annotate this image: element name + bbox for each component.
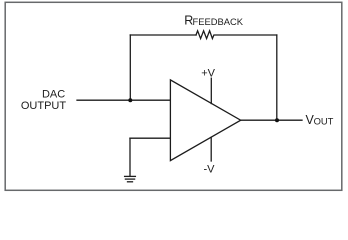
svg-text:OUTPUT: OUTPUT bbox=[21, 100, 67, 112]
svg-text:FEEDBACK: FEEDBACK bbox=[193, 16, 244, 27]
svg-text:DAC: DAC bbox=[42, 89, 65, 101]
svg-text:OUT: OUT bbox=[314, 115, 334, 126]
svg-text:+V: +V bbox=[201, 68, 215, 80]
svg-text:-V: -V bbox=[204, 163, 216, 175]
